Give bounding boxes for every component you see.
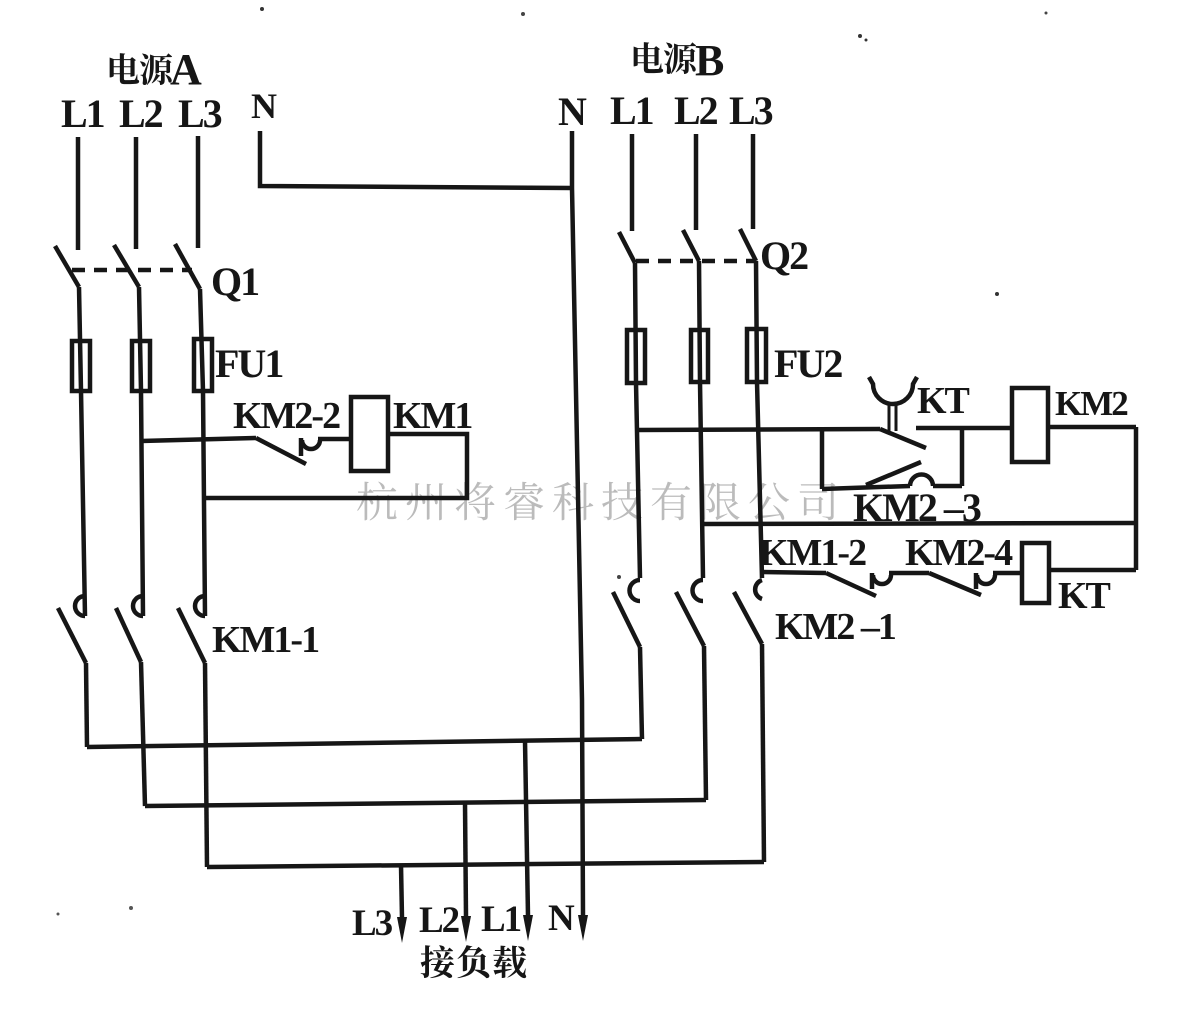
wire junction drop to lower branch <box>820 430 825 489</box>
contact KM2-1 pole3 bowl <box>755 580 762 599</box>
wire KM1-1 pole3 to bus3 <box>205 663 207 867</box>
wire L2B Q2 to KM2-1 <box>699 261 703 578</box>
svg-text:L1: L1 <box>61 91 104 136</box>
contact KM2-4 blade <box>929 573 981 595</box>
wire KM1-2 to KM2-4 <box>889 571 929 576</box>
wire L2A to KM2-2 <box>141 438 256 441</box>
svg-text:KM1-1: KM1-1 <box>212 619 319 661</box>
fuse FU1 pole1 <box>72 341 90 391</box>
wire N(A) drop and link <box>260 131 572 188</box>
wire KM2-4 to KT coil <box>993 571 1022 576</box>
svg-text:KT: KT <box>1058 575 1111 617</box>
arrow L1 output <box>523 915 533 941</box>
wire KM2 return to L2B <box>702 523 1136 524</box>
breaker Q2 linkage dashed line <box>636 259 756 264</box>
wire KM2-3 to link <box>933 484 962 489</box>
svg-text:B: B <box>695 36 724 85</box>
fuse FU1 pole3 <box>194 339 212 391</box>
wire L1B drop <box>630 134 635 231</box>
contact KM1-1 pole1 blade <box>58 608 86 663</box>
wire KM2-1 pole2 to bus2 <box>704 646 706 800</box>
KT delay symbol cup <box>869 377 917 404</box>
label source A 电源A <box>110 53 140 84</box>
fuse FU1 pole2 <box>132 341 150 391</box>
contact KM2-1 pole3 blade <box>734 592 762 644</box>
wire L3 output drop <box>401 865 402 918</box>
bus wire 3 (L3 out) <box>207 862 764 867</box>
svg-text:L2: L2 <box>419 900 459 941</box>
contact KM1-1 pole2 blade <box>116 608 141 662</box>
wire right link vertical <box>960 428 965 486</box>
coil KM2 <box>1012 388 1048 462</box>
coil KM1 <box>351 397 388 471</box>
contact KM2-1 pole1 bowl <box>630 580 641 601</box>
svg-text:L1: L1 <box>481 899 521 940</box>
contact KM2-1 pole1 blade <box>613 592 640 647</box>
breaker Q2 pole2 blade <box>683 230 699 261</box>
arrow L2 output <box>461 916 471 942</box>
svg-text:Q2: Q2 <box>760 233 808 278</box>
label source B 电源B <box>634 42 664 73</box>
svg-text:L2: L2 <box>119 91 163 136</box>
wire L2B drop <box>694 134 699 230</box>
svg-text:KM1-2: KM1-2 <box>759 532 866 574</box>
contact KM1-1 pole3 bowl <box>195 596 205 616</box>
svg-text:L3: L3 <box>178 91 222 136</box>
svg-text:KM2-4: KM2-4 <box>905 532 1013 574</box>
breaker Q1 pole2 blade <box>114 245 139 287</box>
breaker Q2 pole1 blade <box>619 232 635 263</box>
label 接负载 (connect load) <box>421 945 454 978</box>
svg-text:A: A <box>170 45 202 94</box>
svg-text:Q1: Q1 <box>211 259 258 304</box>
wire L1 output drop <box>525 741 528 916</box>
wire KM2-2 to KM1 coil <box>318 437 351 442</box>
wire KM1-1 pole1 to bus1 <box>86 663 87 747</box>
wire L1A drop <box>76 137 81 250</box>
wire KM2-1 pole3 to bus3 <box>762 644 764 862</box>
svg-text:L2: L2 <box>674 88 718 133</box>
breaker Q1 linkage dashed line <box>72 268 192 273</box>
contact KM1-1 pole1 bowl <box>75 596 85 616</box>
svg-text:KT: KT <box>917 380 970 422</box>
wire L1B Q2 to KM2-1 <box>635 263 640 578</box>
contact KM2-1 pole2 bowl <box>693 580 703 601</box>
svg-text:L3: L3 <box>729 88 773 133</box>
watermark text 杭州将睿科技有限公司 <box>357 482 396 521</box>
scan specks <box>260 7 264 11</box>
svg-text:KM1: KM1 <box>393 395 472 437</box>
wire L2A drop <box>134 137 139 249</box>
svg-text:N: N <box>548 898 575 939</box>
wire right bus vertical <box>1134 427 1139 570</box>
svg-text:L1: L1 <box>610 88 653 133</box>
breaker Q2 pole3 blade <box>740 229 756 261</box>
contact KM1-1 pole3 blade <box>178 608 205 663</box>
wire L1B to KT contact <box>637 429 880 430</box>
contact KM2-4 fixed hook <box>974 573 979 589</box>
contact KM2-3 fixed bump <box>910 475 933 486</box>
svg-text:N: N <box>251 86 277 126</box>
svg-text:N: N <box>558 89 587 134</box>
fuse FU2 pole1 <box>627 330 645 383</box>
svg-text:FU2: FU2 <box>774 341 842 386</box>
wire KT coil right <box>1049 568 1136 573</box>
wire KM1-1 pole2 to bus2 <box>141 662 145 806</box>
contact KM1-1 pole2 bowl <box>133 596 143 616</box>
contact KM1-2 fixed hook <box>870 573 875 589</box>
contact KM2-3 blade <box>866 462 921 485</box>
wire L1A Q1 to KM1-1 <box>79 287 85 616</box>
fuse FU2 pole2 <box>691 330 708 382</box>
wire KM1 coil right return <box>204 434 467 498</box>
arrow L3 output <box>397 917 407 943</box>
contact KM2-1 pole2 blade <box>676 592 704 646</box>
contact KT delayed blade <box>880 429 926 448</box>
bus wire 1 (L1 out) <box>87 739 642 747</box>
wire KM2-1 pole1 to bus1 <box>640 647 642 739</box>
bus wire 2 (L2 out) <box>145 800 706 806</box>
svg-text:FU1: FU1 <box>215 341 282 386</box>
svg-text:L3: L3 <box>352 903 393 944</box>
coil KT <box>1022 543 1049 603</box>
wire L2A Q1 to KM1-1 <box>139 287 143 616</box>
wire KM2 coil right <box>1048 425 1136 430</box>
svg-text:KM2 –1: KM2 –1 <box>775 606 896 648</box>
fuse FU2 pole3 <box>747 329 766 382</box>
wire L3B drop <box>751 134 756 229</box>
breaker Q1 pole1 blade <box>55 246 79 287</box>
wire L3A drop <box>196 136 201 248</box>
wire N(B) vertical <box>572 131 583 916</box>
contact KM1-2 blade <box>826 573 876 596</box>
wire lower branch KM2-3 <box>822 486 910 489</box>
contact KM2-2 blade <box>256 438 306 464</box>
svg-text:KM2-2: KM2-2 <box>233 395 340 437</box>
wire L3B to KM1-2 <box>762 572 826 573</box>
wire L2 output drop <box>465 803 466 917</box>
breaker Q1 pole3 blade <box>175 244 200 289</box>
wire L3B Q2 to KM2-1 <box>756 261 762 578</box>
arrow N output <box>578 915 588 941</box>
wire L3A Q1 to KM1-1 <box>200 289 205 616</box>
contact KM2-2 fixed hook <box>299 438 304 456</box>
svg-text:KM2: KM2 <box>1055 384 1127 423</box>
wire KT fixed to KM2 coil <box>916 426 1012 431</box>
